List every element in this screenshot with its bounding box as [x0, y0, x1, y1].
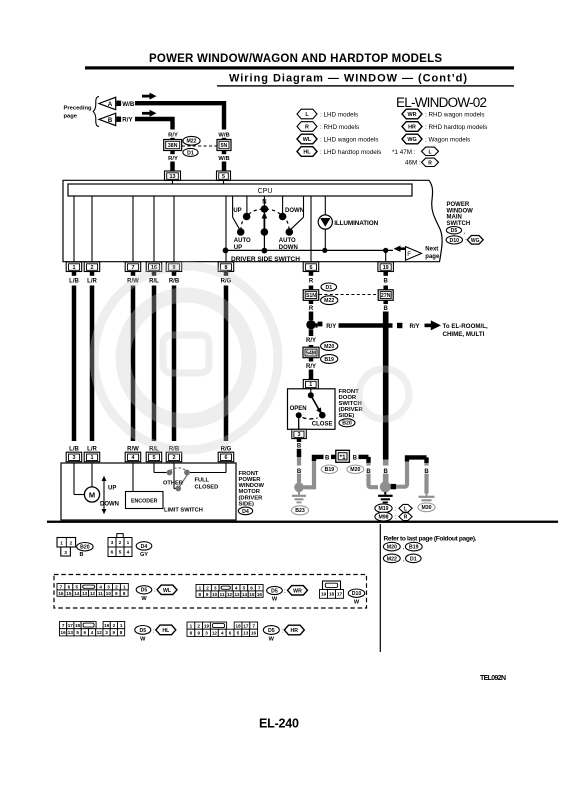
- wire L/B: [72, 286, 77, 442]
- svg-text:MAIN: MAIN: [447, 215, 462, 221]
- wire R/Y down: [309, 329, 314, 336]
- connector 38N: [164, 140, 182, 151]
- svg-text:*1: *1: [340, 454, 346, 461]
- connector B19 label: [405, 542, 422, 551]
- svg-text:page: page: [425, 254, 440, 260]
- svg-text:B: B: [424, 469, 429, 475]
- svg-text:27N: 27N: [381, 293, 391, 299]
- main switch terminal 2: [84, 262, 100, 272]
- wire R/L: [152, 286, 157, 442]
- connector B23 label: [291, 506, 308, 515]
- svg-text:B20: B20: [80, 545, 90, 551]
- ground symbol M30: [419, 493, 435, 504]
- connector D5 (WL) pin view: [57, 584, 65, 590]
- svg-text:R: R: [309, 278, 314, 284]
- main switch terminal 16: [146, 262, 162, 272]
- connector M19 label: [375, 504, 392, 513]
- svg-text:HR: HR: [291, 628, 299, 634]
- legend WR : RHD wagon models: [402, 109, 422, 119]
- svg-text:FRONT: FRONT: [239, 471, 259, 477]
- svg-text:: LHD wagon models: : LHD wagon models: [320, 136, 378, 143]
- driver side switch contact lines: [232, 196, 234, 217]
- svg-text:R/L: R/L: [149, 278, 159, 284]
- connector B19 label: [321, 355, 338, 364]
- svg-text:*1 47M :: *1 47M :: [392, 149, 416, 156]
- up/down arrow: [103, 479, 105, 511]
- svg-text:7: 7: [132, 265, 135, 271]
- connector D4 pin view: [117, 534, 123, 538]
- svg-text:16: 16: [61, 630, 67, 635]
- terminal 3 door switch: [292, 429, 307, 438]
- svg-text::: :: [281, 628, 283, 635]
- svg-text:N: N: [262, 199, 266, 205]
- svg-text:13: 13: [234, 592, 240, 597]
- svg-text:9: 9: [115, 591, 118, 596]
- svg-text:OTHER: OTHER: [163, 481, 183, 487]
- svg-text:3: 3: [73, 455, 76, 461]
- svg-text:16: 16: [58, 591, 64, 596]
- svg-text:10: 10: [106, 591, 112, 596]
- svg-text:15: 15: [249, 592, 255, 597]
- svg-text:14: 14: [242, 592, 248, 597]
- svg-text:1: 1: [309, 382, 312, 388]
- hex HL: [156, 625, 176, 635]
- svg-text:EL-240: EL-240: [259, 717, 299, 731]
- svg-text:4: 4: [91, 630, 94, 635]
- svg-text:7: 7: [252, 623, 255, 628]
- svg-text:3: 3: [298, 432, 301, 438]
- connector M22 label: [321, 296, 338, 305]
- svg-text:19: 19: [321, 592, 327, 598]
- branch to M30: [391, 484, 396, 489]
- svg-text:D1: D1: [187, 150, 194, 156]
- svg-text:WINDOW: WINDOW: [447, 208, 474, 214]
- svg-text:8: 8: [123, 591, 126, 596]
- svg-text:,: ,: [464, 229, 466, 236]
- svg-text:WR: WR: [408, 112, 417, 118]
- svg-text::: :: [153, 627, 155, 634]
- svg-text:R/Y: R/Y: [326, 324, 336, 330]
- svg-text:B: B: [297, 443, 302, 449]
- svg-text:W/B: W/B: [218, 156, 229, 162]
- svg-text:R: R: [309, 306, 314, 312]
- svg-text:M22: M22: [324, 298, 334, 304]
- svg-text:7: 7: [258, 586, 261, 591]
- svg-text::: :: [284, 588, 286, 595]
- svg-text:,: ,: [403, 556, 405, 563]
- svg-text:B19: B19: [324, 357, 334, 363]
- svg-text:17: 17: [68, 623, 74, 628]
- svg-text:HR: HR: [408, 125, 416, 131]
- svg-text:page: page: [64, 113, 78, 119]
- svg-text:R: R: [428, 160, 432, 166]
- connector D5 (WR) pin view: [196, 585, 204, 591]
- svg-text:19: 19: [383, 265, 389, 271]
- front power window motor box: [61, 463, 236, 520]
- svg-text:POWER: POWER: [239, 477, 262, 483]
- svg-text:8: 8: [198, 592, 201, 597]
- svg-text:B19: B19: [325, 467, 335, 473]
- svg-text:2: 2: [197, 623, 200, 628]
- svg-text:Refer to last page (Foldout pa: Refer to last page (Foldout page).: [384, 535, 477, 542]
- next page triangle F: [406, 247, 422, 261]
- main switch terminal 7: [125, 262, 141, 272]
- svg-text:W: W: [141, 596, 147, 602]
- svg-text:WG: WG: [471, 238, 480, 244]
- svg-text:1: 1: [120, 623, 123, 628]
- junction dot R/Y: [306, 320, 315, 329]
- svg-text:11: 11: [220, 592, 225, 597]
- svg-text:TEL092N: TEL092N: [480, 675, 506, 682]
- connector S1N: [303, 290, 319, 301]
- wire R: [309, 286, 314, 291]
- svg-text:HL: HL: [162, 628, 170, 634]
- off-page connector B: [99, 113, 116, 125]
- connector D5 label: [136, 586, 152, 594]
- svg-text:1: 1: [91, 455, 94, 461]
- svg-text:12: 12: [90, 591, 96, 596]
- brace: [93, 97, 99, 127]
- hex R: [399, 513, 412, 521]
- svg-text:WL: WL: [303, 137, 312, 143]
- svg-text:R/Y: R/Y: [122, 117, 133, 124]
- svg-text:17: 17: [337, 592, 343, 598]
- svg-text:5: 5: [75, 585, 78, 590]
- svg-text:5: 5: [243, 586, 246, 591]
- door switch contacts: [310, 389, 312, 393]
- svg-text:R/Y: R/Y: [168, 156, 178, 162]
- svg-text:: RHD wagon models: : RHD wagon models: [425, 111, 485, 118]
- svg-text:16: 16: [251, 631, 257, 636]
- CPU output lines to bottom terminals: [73, 196, 75, 262]
- svg-text:6: 6: [229, 631, 232, 636]
- svg-text:L: L: [428, 149, 431, 155]
- connector M20 label: [383, 542, 400, 551]
- svg-text:5N: 5N: [221, 143, 228, 149]
- svg-text:L/R: L/R: [87, 278, 97, 284]
- svg-text:D1: D1: [410, 556, 417, 562]
- legend L : LHD models: [297, 109, 317, 119]
- svg-text:7: 7: [60, 585, 63, 590]
- svg-text:R/B: R/B: [169, 278, 180, 284]
- power window main switch box: [63, 180, 442, 261]
- svg-text:GY: GY: [140, 552, 148, 558]
- svg-text:M20: M20: [387, 545, 397, 551]
- connector B19 label: [321, 465, 337, 473]
- main switch terminal 1: [66, 262, 82, 272]
- terminal 5: [217, 171, 231, 181]
- connector D1 label: [183, 148, 198, 156]
- motor M: [73, 463, 75, 495]
- svg-text:9: 9: [113, 630, 116, 635]
- ground junction B23: [294, 483, 304, 493]
- svg-text:: LHD hardtop models: : LHD hardtop models: [320, 149, 381, 156]
- svg-text:B: B: [384, 278, 389, 284]
- svg-text:6: 6: [250, 586, 253, 591]
- motor terminal 3: [66, 452, 82, 462]
- dashed link 38N-5N: [182, 145, 217, 147]
- pivot line down to bus: [263, 232, 265, 251]
- connector D10 pin view: [323, 581, 341, 590]
- connector D5 label: [263, 626, 279, 635]
- connector 27N: [378, 290, 393, 301]
- svg-text:FULL: FULL: [195, 478, 210, 484]
- arrow left to F: [394, 246, 401, 252]
- connector D4 label: [238, 507, 252, 515]
- connector M98 label: [375, 512, 392, 521]
- arrow to EL-ROOM: [425, 324, 432, 328]
- svg-text:5: 5: [119, 550, 122, 556]
- footnote divider: [379, 524, 381, 652]
- main switch terminal 19: [378, 262, 394, 272]
- svg-text:13: 13: [82, 591, 88, 596]
- svg-text:Preceding: Preceding: [64, 106, 92, 112]
- svg-text:1: 1: [73, 265, 76, 271]
- svg-text:B: B: [384, 469, 389, 475]
- svg-text:To EL-ROOM/L,: To EL-ROOM/L,: [443, 323, 489, 330]
- hex WR: [288, 586, 308, 595]
- wire R/G: [224, 286, 229, 442]
- svg-text:M22: M22: [387, 556, 397, 562]
- svg-text:W: W: [269, 637, 275, 643]
- svg-text:17: 17: [243, 623, 249, 628]
- wire B down: [383, 312, 389, 460]
- svg-text:12: 12: [97, 630, 103, 635]
- svg-text:W: W: [272, 597, 278, 603]
- faint watermark rings: [94, 266, 409, 450]
- switch contact dots: [243, 213, 251, 221]
- svg-text:1: 1: [127, 540, 130, 546]
- svg-text:D5: D5: [268, 628, 275, 634]
- wire B gray main: [383, 460, 389, 483]
- ground symbol B23: [292, 492, 306, 503]
- svg-text:WR: WR: [293, 588, 302, 594]
- wire R/Y from preceding page: [135, 119, 173, 130]
- svg-text:1: 1: [199, 586, 202, 591]
- wire R to junction: [309, 312, 314, 321]
- svg-text:8: 8: [190, 631, 193, 636]
- svg-text:7: 7: [62, 623, 65, 628]
- motor terminal 4: [125, 452, 141, 462]
- wire label R below S1N: [309, 300, 314, 304]
- svg-text:W/B: W/B: [122, 101, 135, 108]
- svg-text:4: 4: [235, 586, 238, 591]
- svg-text:R/Y: R/Y: [306, 338, 316, 344]
- hex L: [399, 504, 412, 512]
- svg-text:4: 4: [132, 455, 135, 461]
- svg-text::: :: [154, 587, 156, 594]
- connector D4 label: [136, 542, 152, 550]
- front door switch box: [288, 389, 336, 430]
- title rule: [85, 66, 514, 69]
- terminal 13: [165, 171, 181, 181]
- svg-text:LIMIT SWITCH: LIMIT SWITCH: [164, 508, 203, 514]
- svg-text:AUTO: AUTO: [279, 238, 296, 244]
- svg-text:1: 1: [190, 623, 193, 628]
- wire 5N to terminal 5: [222, 151, 227, 155]
- svg-text:3: 3: [105, 630, 108, 635]
- svg-text:D4: D4: [242, 509, 249, 515]
- svg-text:D1: D1: [325, 285, 332, 291]
- branch to *1 connector: [304, 460, 315, 488]
- svg-text:D4: D4: [141, 544, 148, 550]
- svg-text:6: 6: [310, 265, 313, 271]
- wire 38N to terminal 13: [170, 151, 175, 155]
- wire B black: [297, 439, 302, 442]
- wire L/R: [90, 286, 95, 442]
- svg-text:54M: 54M: [306, 351, 316, 357]
- main switch terminal 9: [166, 262, 182, 272]
- connector B20 label: [339, 419, 355, 427]
- svg-text:R: R: [404, 515, 408, 521]
- legend HL : LHD hardtop models: [297, 147, 317, 157]
- svg-text:4: 4: [99, 585, 102, 590]
- connector D10 label: [348, 589, 364, 597]
- motor terminal 6: [218, 452, 234, 462]
- svg-text:12: 12: [227, 592, 233, 597]
- svg-text:14: 14: [74, 591, 80, 596]
- svg-text:B: B: [353, 455, 358, 461]
- wire R/W: [131, 286, 136, 442]
- svg-text:DOWN: DOWN: [285, 208, 304, 214]
- legend WG : Wagon models: [402, 134, 422, 144]
- svg-text:M30: M30: [421, 505, 431, 511]
- svg-text:S1N: S1N: [306, 293, 316, 299]
- svg-text:D5: D5: [451, 228, 458, 234]
- connector D5 label: [446, 227, 461, 235]
- svg-text:46M :: 46M :: [405, 160, 421, 167]
- connector B20 pin view: [57, 538, 76, 548]
- svg-text:M20: M20: [350, 467, 360, 473]
- switch dashed arc: [241, 209, 290, 231]
- svg-text:DOWN: DOWN: [100, 502, 119, 508]
- svg-text::: :: [465, 237, 467, 244]
- connector M20 label: [321, 342, 338, 351]
- svg-text:WL: WL: [163, 588, 172, 594]
- svg-text:B19: B19: [409, 545, 419, 551]
- svg-text:B: B: [366, 469, 371, 475]
- ground symbol M19/M98: [378, 492, 393, 503]
- connector D5 (HR) pin view: [187, 622, 195, 629]
- svg-text:3: 3: [64, 550, 67, 556]
- svg-text:M20: M20: [324, 344, 334, 350]
- svg-text:15: 15: [66, 591, 72, 596]
- svg-text:9: 9: [197, 631, 200, 636]
- svg-text:B: B: [325, 455, 330, 461]
- svg-text:3: 3: [214, 586, 217, 591]
- svg-text:W: W: [140, 636, 146, 642]
- svg-text:4: 4: [221, 631, 224, 636]
- CPU box: [68, 184, 412, 196]
- svg-text:18: 18: [75, 623, 81, 628]
- connector M20 label: [347, 465, 364, 473]
- svg-text:R: R: [305, 125, 309, 131]
- svg-text:,: ,: [403, 544, 405, 551]
- svg-text:B20: B20: [342, 421, 352, 427]
- svg-text:F: F: [407, 251, 411, 258]
- svg-text:POWER WINDOW/WAGON AND HARDTOP: POWER WINDOW/WAGON AND HARDTOP MODELS: [149, 53, 442, 65]
- svg-text:AUTO: AUTO: [234, 238, 251, 244]
- main switch terminal 6: [303, 262, 319, 272]
- wire label B below 27N: [383, 300, 388, 304]
- wire to door switch: [309, 358, 314, 362]
- svg-text:UP: UP: [108, 486, 116, 492]
- svg-text:EL-WINDOW-02: EL-WINDOW-02: [396, 95, 487, 110]
- off-page connector A: [99, 97, 116, 109]
- svg-text:D10: D10: [352, 591, 362, 597]
- svg-text:18: 18: [236, 623, 242, 628]
- svg-text:WINDOW: WINDOW: [239, 483, 265, 489]
- bus line to next page: [226, 249, 394, 251]
- svg-text:38N: 38N: [168, 143, 178, 149]
- svg-text:6: 6: [84, 630, 87, 635]
- svg-text:UP: UP: [233, 208, 241, 214]
- svg-text:OPEN: OPEN: [290, 406, 307, 412]
- line from bus to terminal 19: [385, 251, 387, 262]
- wire B gray: [297, 457, 301, 483]
- connector 5N: [217, 140, 231, 151]
- svg-text:5: 5: [222, 174, 225, 180]
- connector M30 label: [418, 503, 435, 512]
- svg-text:: RHD models: : RHD models: [320, 124, 359, 131]
- main switch terminal 8: [218, 262, 234, 272]
- svg-text:R/Y: R/Y: [409, 324, 419, 330]
- svg-text:6: 6: [68, 585, 71, 590]
- svg-text::: :: [395, 514, 397, 521]
- connector D1 label: [406, 554, 422, 563]
- motor terminal 5: [146, 452, 162, 462]
- dashed option box: [54, 575, 367, 609]
- svg-text:11: 11: [98, 591, 103, 596]
- svg-text:1: 1: [123, 585, 126, 590]
- svg-text:13: 13: [243, 631, 249, 636]
- arrow right (A): [142, 95, 150, 98]
- svg-text:M: M: [89, 490, 95, 499]
- svg-text:3: 3: [107, 585, 110, 590]
- svg-text:12: 12: [212, 631, 218, 636]
- svg-text:WG: WG: [407, 137, 416, 143]
- svg-text:L/B: L/B: [69, 278, 79, 284]
- wire B: [383, 286, 388, 291]
- legend R : RHD models: [297, 122, 317, 132]
- connector D1 label: [321, 283, 337, 291]
- connector M22 label: [383, 554, 400, 563]
- svg-text:SWITCH: SWITCH: [447, 221, 471, 227]
- svg-text:4: 4: [127, 550, 130, 556]
- svg-text:SIDE): SIDE): [339, 413, 355, 419]
- subtitle rule: [217, 85, 514, 86]
- wire R/B: [172, 286, 177, 442]
- svg-text:3: 3: [111, 540, 114, 546]
- connector D5 label: [135, 626, 151, 635]
- hex HR: [284, 625, 304, 635]
- svg-text::: :: [395, 506, 397, 513]
- svg-text:6: 6: [225, 455, 228, 461]
- terminal 13/5 entry lines: [172, 180, 174, 184]
- connector D10 label with WG: [446, 236, 462, 244]
- svg-text:M19: M19: [378, 506, 388, 512]
- svg-text:CPU: CPU: [258, 188, 273, 195]
- ground junction M19: [380, 481, 391, 492]
- svg-text:SIDE): SIDE): [239, 501, 255, 507]
- svg-text:POWER: POWER: [447, 202, 470, 208]
- svg-text:CLOSE: CLOSE: [312, 422, 333, 428]
- svg-text:CLOSED: CLOSED: [195, 484, 219, 490]
- arrow right (B): [142, 112, 150, 115]
- svg-text:D5: D5: [271, 588, 278, 594]
- connector D5 label: [267, 586, 283, 594]
- wire to 54M: [309, 345, 314, 348]
